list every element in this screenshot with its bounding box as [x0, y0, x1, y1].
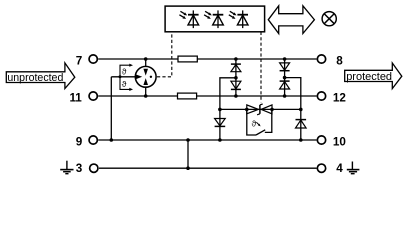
GDT electrode dot [150, 76, 152, 78]
junction suppressor rail right corner [299, 108, 303, 112]
diode V8 left lower [215, 119, 226, 127]
wire left midpoint stub [220, 78, 236, 110]
svg-text:ϑ: ϑ [122, 79, 127, 89]
junction right diode pair top on line 7-8 [283, 57, 287, 61]
junction link on line 3-4 [186, 166, 190, 170]
junction left diode pair top on line 7-8 [234, 57, 238, 61]
terminal 7 [89, 55, 97, 63]
wire TVS rail [220, 108, 301, 110]
junction GDT earth branch on line 9-10 [110, 138, 114, 142]
earth symbol right [347, 162, 360, 174]
terminal 10 [317, 136, 325, 144]
GDT top arrow [143, 69, 148, 76]
terminal 12 [317, 92, 325, 100]
remote lamp symbol [322, 12, 336, 26]
svg-text:unprotected: unprotected [7, 72, 63, 84]
LED indicator box [165, 6, 265, 32]
junction right diode on line 9-10 [299, 138, 303, 142]
unprotected label arrow [6, 63, 75, 89]
protected label arrow [345, 63, 402, 89]
svg-text:ϑ: ϑ [122, 67, 127, 77]
wire left diode branch [235, 59, 237, 96]
wire GDT bottom electrode [145, 84, 147, 96]
LED V3 [229, 10, 248, 28]
earth symbol left [60, 161, 73, 174]
wire line 9-10 [98, 139, 316, 141]
suppressor diode U1 bidirectional [247, 104, 272, 115]
svg-text:9: 9 [76, 135, 83, 148]
terminal 4 [317, 164, 325, 172]
wire right diode branch [284, 59, 286, 96]
svg-text:11: 11 [69, 92, 82, 105]
svg-text:10: 10 [333, 135, 347, 148]
wire left vertical through diode [219, 109, 221, 140]
terminal 3 [90, 164, 98, 172]
wire line 7-8 [98, 58, 316, 60]
junction GDT bottom on line 11-12 [144, 94, 148, 98]
LED V2 [204, 10, 223, 28]
diode V6 upper right pair [280, 63, 290, 71]
wire link 9-10 to 3-4 [187, 140, 189, 168]
wire right midpoint stub [285, 78, 301, 110]
wire thermal switch left branch [247, 109, 256, 135]
wire GDT center rail [111, 76, 136, 78]
dashed link LED box to GDT [157, 32, 172, 77]
svg-text:ϑ: ϑ [252, 119, 257, 129]
diode V7 lower right pair [280, 81, 290, 89]
junction left diode pair bottom on line 11-12 [234, 94, 238, 98]
GDT thermal disconnect upper bracket [120, 65, 130, 77]
function double arrow [268, 6, 314, 34]
wire GDT center to line 9-10 [110, 77, 112, 140]
GDT bottom arrow [143, 78, 148, 85]
svg-text:12: 12 [333, 92, 347, 105]
GDT thermal disconnect lower bracket [120, 77, 130, 90]
terminal 11 [89, 92, 97, 100]
thermal switch theta arrow [256, 122, 258, 124]
junction left diode on line 9-10 [218, 138, 222, 142]
diode V5 lower left pair [231, 81, 241, 89]
wire line 11-12 [98, 95, 316, 97]
resistor R1 [178, 56, 197, 62]
junction suppressor left node [245, 108, 249, 112]
svg-text:3: 3 [76, 162, 83, 175]
dashed link LED box to suppressor [260, 32, 262, 103]
resistor R2 [178, 93, 197, 99]
LED V1 [179, 10, 198, 28]
junction left diode pair midpoint [234, 76, 238, 80]
svg-text:protected: protected [346, 71, 392, 83]
terminal 8 [317, 55, 325, 63]
diode V9 right lower [296, 120, 307, 128]
wire right vertical through diode [300, 109, 302, 140]
junction suppressor right node [270, 108, 274, 112]
GDT bracket junction dot [119, 75, 122, 78]
wire GDT top electrode [145, 59, 147, 70]
junction right diode pair midpoint [283, 76, 287, 80]
junction right diode pair bottom on line 11-12 [283, 94, 287, 98]
GDT left arrow [136, 75, 142, 80]
gas discharge tube G1 circle [135, 66, 156, 87]
junction suppressor rail left corner [218, 108, 222, 112]
diode V4 upper left pair [231, 64, 241, 72]
svg-text:4: 4 [336, 162, 343, 175]
junction GDT top on line 7-8 [144, 57, 148, 61]
terminal 9 [89, 136, 97, 144]
thermal switch blade [256, 130, 265, 135]
wire thermal switch right branch [265, 109, 272, 132]
svg-text:7: 7 [76, 54, 83, 67]
wire line 3-4 [99, 167, 317, 169]
svg-text:8: 8 [336, 54, 343, 67]
junction link on line 9-10 [186, 138, 190, 142]
